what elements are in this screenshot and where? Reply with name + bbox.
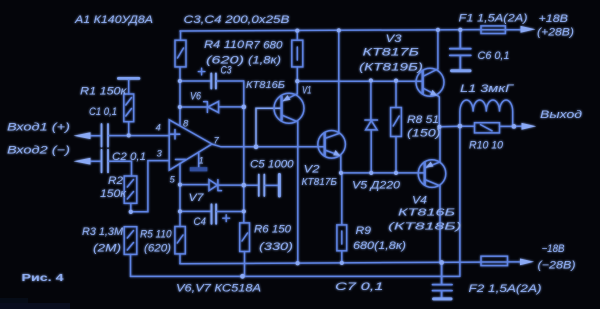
wire V5 top stub: [370, 81, 372, 120]
svg-text:(1,8к): (1,8к): [248, 55, 281, 67]
svg-text:(2М): (2М): [93, 243, 121, 255]
svg-text:R8 51: R8 51: [407, 114, 439, 126]
wire input1 to pin4: [109, 135, 170, 137]
wire V4 collector down: [439, 186, 441, 263]
node dots V3 base row: [295, 79, 299, 83]
svg-text:4: 4: [156, 123, 161, 134]
transistor V3 emitter arrow (NPN outward): [430, 90, 437, 96]
node dot bus R6: [240, 274, 245, 279]
svg-text:Вход1 (+): Вход1 (+): [7, 122, 70, 134]
svg-text:КТ817Б: КТ817Б: [302, 177, 338, 188]
chassis bar above R1: [118, 77, 138, 80]
capacitor C1: [102, 124, 109, 147]
wire V1 collector vertical: [297, 122, 299, 263]
svg-text:С3,С4 200,0х25В: С3,С4 200,0х25В: [184, 14, 290, 26]
inductor L1: [460, 100, 513, 126]
wire V5 bottom stub: [370, 130, 372, 173]
transistor V2 emitter arrow (NPN outward): [333, 150, 340, 156]
wire R6 bottom stub: [244, 252, 246, 277]
node dots negative rail: [295, 261, 299, 265]
arrow input2: [74, 158, 91, 165]
zener V6: [204, 101, 219, 112]
wire pin8 stub above R4: [180, 31, 182, 40]
svg-text:V3: V3: [386, 33, 402, 45]
svg-text:С5 1000: С5 1000: [250, 159, 294, 171]
svg-text:(−28В): (−28В): [538, 260, 576, 272]
capacitor C3: [211, 74, 216, 89]
wire pin8 vertical: [179, 67, 181, 126]
svg-text:А1 К140УД8А: А1 К140УД8А: [74, 14, 153, 26]
wire R10 left: [460, 125, 475, 127]
wire V3 base row: [297, 80, 422, 82]
svg-text:(150): (150): [407, 128, 441, 140]
wire bus to output vertical: [459, 126, 461, 275]
svg-text:С4: С4: [194, 216, 207, 228]
svg-text:Рис. 4: Рис. 4: [22, 272, 64, 284]
resistor R9: [337, 225, 347, 251]
node dots row 211: [129, 210, 133, 214]
op-amp U1 triangle: [169, 120, 212, 170]
transistor V2: [318, 131, 346, 159]
scan streak bottom-left: [0, 303, 70, 309]
arrows and junction dots: [74, 26, 537, 279]
wire V2 emitter row: [341, 172, 425, 174]
svg-text:(330): (330): [259, 241, 293, 253]
wire R5 bottom stub: [179, 254, 181, 264]
svg-text:−18В: −18В: [542, 243, 565, 255]
svg-text:V1: V1: [302, 85, 312, 97]
transistor V1 emitter arrow (PNP into base): [283, 95, 291, 101]
op-amp plus input mark: [170, 130, 185, 160]
node dots top rail: [295, 28, 299, 32]
node dot V6 row right: [241, 105, 246, 110]
svg-text:(620): (620): [144, 243, 171, 255]
svg-text:150к: 150к: [100, 188, 127, 200]
svg-text:5: 5: [170, 175, 176, 186]
svg-text:L1 3мкГ: L1 3мкГ: [460, 83, 515, 95]
diode V5: [365, 120, 378, 130]
wire V6 row left: [180, 106, 207, 108]
wire R7 to V1 emitter: [296, 67, 298, 94]
wire C5 to chassis: [265, 184, 278, 186]
wire V6 row right: [219, 106, 244, 108]
svg-text:R10 10: R10 10: [469, 140, 503, 152]
chassis bar below C7: [434, 297, 451, 300]
wire C3 row right: [217, 80, 244, 82]
svg-text:Вход2 (−): Вход2 (−): [7, 145, 70, 157]
wire pin3 link: [131, 161, 169, 212]
op-amp pin1 chassis pad: [190, 167, 208, 171]
wire input2 arrow line: [86, 160, 101, 162]
resistor R6: [240, 223, 250, 252]
wire R2 bottom: [130, 203, 132, 212]
resistor R4: [175, 40, 186, 67]
svg-text:V7: V7: [189, 192, 205, 204]
arrow output: [522, 123, 537, 130]
svg-text:V2: V2: [304, 164, 320, 176]
arrow input1: [74, 132, 91, 139]
svg-text:(+28В): (+28В): [537, 27, 574, 39]
plus sign C4: [223, 215, 230, 222]
svg-text:Выход: Выход: [540, 109, 582, 121]
svg-text:R3 1,3М: R3 1,3М: [82, 226, 123, 238]
svg-text:R5 110: R5 110: [140, 229, 172, 241]
wire R5 top stub: [179, 211, 181, 226]
transistor V3: [416, 68, 444, 96]
svg-text:R1 150к: R1 150к: [80, 86, 128, 98]
svg-text:+18В: +18В: [539, 13, 569, 25]
svg-text:F2 1,5А(2А): F2 1,5А(2А): [469, 283, 542, 295]
node dots emitter row: [339, 171, 343, 175]
wire V4 emitter-up link: [439, 127, 441, 162]
svg-text:С3: С3: [221, 65, 232, 77]
resistor R1: [124, 94, 134, 122]
svg-text:V5 Д220: V5 Д220: [352, 180, 400, 192]
wire pin5 vertical: [179, 163, 181, 211]
svg-text:F1 1,5А(2А): F1 1,5А(2А): [459, 13, 528, 25]
node dot output B: [458, 124, 463, 129]
svg-text:С7 0,1: С7 0,1: [335, 281, 384, 293]
svg-text:С2 0,1: С2 0,1: [112, 151, 146, 163]
zener V7: [209, 180, 222, 191]
wire input1 arrow line: [86, 135, 101, 137]
fuse F2: [481, 256, 508, 265]
wire V3 emitter to node: [438, 96, 440, 127]
chassis bar below C6: [452, 69, 470, 72]
wire R9 bottom stub: [341, 251, 343, 263]
wire V3 collector: [437, 30, 439, 69]
node dots pin8 column: [178, 79, 182, 83]
chassis bar right of C5: [278, 175, 281, 197]
arrow -18V: [520, 259, 534, 266]
wire pin7 output: [212, 144, 325, 147]
svg-text:7: 7: [214, 136, 220, 147]
fuse F1: [481, 26, 505, 34]
wire node row to output: [439, 125, 460, 128]
op-amp pin1 stub: [198, 152, 200, 167]
resistor R7: [292, 40, 303, 67]
wire row 211 left: [180, 210, 211, 212]
wire V1 base link: [256, 108, 282, 147]
resistor R10: [475, 123, 500, 133]
wire R8 bottom stub: [395, 137, 397, 173]
svg-text:R7 680: R7 680: [245, 40, 283, 52]
wire R7 top stub: [296, 31, 298, 41]
transistor V4: [418, 160, 446, 188]
node dot V3/V4: [437, 125, 441, 129]
wire R8 top stub: [395, 81, 397, 108]
svg-text:V6,V7 КС518А: V6,V7 КС518А: [176, 283, 261, 295]
resistor R8: [391, 108, 402, 137]
resistor R3: [124, 227, 137, 255]
node dot output C: [512, 124, 517, 129]
capacitor C7: [433, 263, 453, 297]
svg-text:R6 150: R6 150: [254, 224, 291, 236]
wire V7 row right: [218, 184, 244, 186]
wire input2 to R2 corner: [109, 161, 132, 176]
svg-text:(КТ819Б): (КТ819Б): [359, 62, 423, 74]
capacitor C5: [259, 175, 265, 197]
wire R10 right to node C: [500, 125, 514, 127]
svg-text:3: 3: [157, 149, 163, 160]
plus sign C3: [198, 68, 205, 75]
svg-text:V6: V6: [190, 91, 201, 103]
wire top +V rail: [180, 30, 481, 31]
node dots pin5: [178, 182, 182, 186]
wire V2 collector: [338, 30, 340, 133]
svg-text:КТ817Б: КТ817Б: [363, 47, 420, 59]
svg-text:КТ816Б: КТ816Б: [398, 208, 456, 219]
transistor V1: [274, 93, 304, 123]
node dot output to V1 base: [254, 144, 259, 149]
wire R9 top stub: [341, 173, 343, 225]
wire R3 bottom corner: [130, 254, 132, 276]
svg-text:(КТ818Б): (КТ818Б): [388, 222, 462, 233]
wire output arrow tail: [514, 125, 525, 127]
svg-text:680(1,8к): 680(1,8к): [353, 240, 406, 252]
svg-text:С6 0,1: С6 0,1: [478, 50, 510, 62]
wire feedback bus: [131, 275, 460, 277]
svg-text:1: 1: [199, 156, 204, 167]
svg-text:С1 0,1: С1 0,1: [89, 106, 117, 118]
svg-text:R4 110: R4 110: [204, 39, 244, 51]
transistor V4 emitter arrow (PNP into base): [426, 162, 434, 168]
resistor R2: [124, 176, 137, 203]
svg-text:R2: R2: [108, 175, 123, 187]
wire negative rail: [180, 262, 481, 264]
wire V2 emitter: [340, 156, 342, 173]
capacitor C4: [212, 204, 217, 223]
wire C5 row: [244, 184, 258, 186]
svg-text:КТ816Б: КТ816Б: [246, 80, 286, 91]
resistor R5: [175, 227, 185, 254]
capacitor C6: [450, 30, 471, 69]
wire C3 row left: [180, 80, 211, 82]
wire row 211 right: [217, 211, 244, 213]
node dot input1/R1: [127, 133, 131, 137]
svg-text:8: 8: [183, 119, 189, 130]
wire V7 row left: [180, 184, 209, 186]
wire R1 top stem: [128, 80, 130, 94]
wire R1 bottom stem: [128, 122, 130, 136]
svg-text:V4: V4: [412, 195, 427, 207]
arrow +18V: [521, 26, 536, 33]
svg-text:R9: R9: [356, 225, 372, 237]
capacitor C2: [102, 150, 109, 173]
wire midpoint vertical: [243, 81, 245, 223]
